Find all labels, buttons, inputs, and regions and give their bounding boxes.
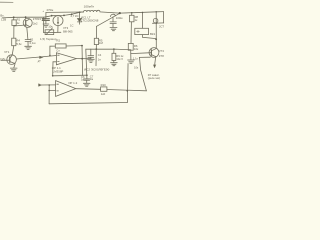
svg-text:1С: 1С	[70, 23, 73, 27]
svg-text:100мГн: 100мГн	[84, 4, 95, 8]
svg-text:VT1: VT1	[4, 50, 10, 54]
svg-text:5,6к: 5,6к	[16, 42, 22, 46]
svg-text:100м: 100м	[116, 16, 123, 20]
svg-text:1к0: 1к0	[101, 92, 106, 96]
svg-text:2СТ: 2СТ	[159, 25, 164, 29]
svg-text:1М: 1М	[99, 41, 104, 45]
svg-text:LTC1050CN8: LTC1050CN8	[81, 19, 99, 23]
svg-text:LМ358Р: LМ358Р	[53, 70, 64, 74]
svg-text:VT2: VT2	[159, 49, 165, 53]
svg-text:12В: 12В	[1, 18, 6, 22]
svg-text:(реле экз): (реле экз)	[148, 76, 160, 80]
svg-text:R10: R10	[101, 83, 107, 87]
svg-text:2и2: 2и2	[33, 22, 38, 26]
svg-text:ВК1: ВК1	[150, 32, 156, 36]
svg-text:ИС2 ЭСХ0Л9ГЕ90: ИС2 ЭСХ0Л9ГЕ90	[84, 68, 110, 72]
svg-text:Сл: Сл	[56, 49, 60, 53]
svg-text:4,7 КС: 4,7 КС	[70, 14, 78, 18]
svg-text:1н: 1н	[81, 77, 84, 81]
svg-text:1,5) Термор.: 1,5) Термор.	[40, 37, 57, 41]
svg-text:ВФ-965: ВФ-965	[63, 30, 73, 34]
svg-text:10к б: 10к б	[116, 57, 123, 61]
svg-text:470м: 470м	[46, 8, 53, 12]
svg-text:КТ815 2,2: КТ815 2,2	[33, 17, 46, 21]
svg-text:10к: 10к	[134, 47, 139, 51]
svg-text:1м: 1м	[90, 77, 94, 81]
svg-text:ОР 1.2: ОР 1.2	[68, 81, 77, 85]
svg-text:0,1м: 0,1м	[30, 41, 36, 45]
svg-text:С4: С4	[98, 53, 102, 57]
svg-text:КТ8: КТ8	[159, 54, 164, 58]
svg-text:R2: R2	[56, 39, 60, 43]
svg-text:10к: 10к	[48, 25, 53, 29]
svg-text:1н: 1н	[98, 57, 101, 61]
svg-text:СИз: СИз	[0, 57, 6, 61]
svg-text:дТ: дТ	[38, 59, 42, 63]
svg-text:+: +	[42, 9, 44, 13]
